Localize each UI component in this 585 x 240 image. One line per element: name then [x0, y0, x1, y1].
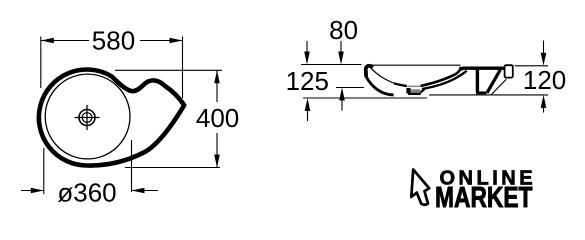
side view bottom line — [429, 94, 548, 96]
dimension 580 extension line right — [182, 37, 184, 99]
dimension 80 arrow down — [340, 41, 342, 58]
side view bowl back wall inner — [421, 67, 461, 86]
dimension 400 arrow bottom — [214, 155, 220, 168]
dimension 580 arrow left — [41, 38, 54, 44]
dimension 400 arrow top — [214, 70, 220, 83]
dimension 125 arrow up — [307, 105, 309, 121]
dimension 400 line bottom segment — [216, 133, 218, 168]
side view drain boss — [408, 86, 426, 94]
side view cavity left wall — [476, 69, 479, 93]
dimension 80 arrow up — [341, 94, 343, 111]
dimension 360 arrow right — [132, 188, 145, 194]
dimension 580 line right segment — [140, 40, 183, 42]
dimension 580 line left segment — [41, 40, 89, 42]
dimension 400 extension line top — [115, 69, 222, 71]
dimension 360 arrow left — [31, 188, 44, 194]
side view reference line bottom — [303, 97, 427, 99]
svg-text:80: 80 — [329, 15, 358, 45]
dimension 360 line left outside — [21, 190, 44, 192]
side view bowl bottom thick line — [394, 83, 407, 86]
side view top surface line — [368, 64, 461, 66]
svg-text:580: 580 — [92, 26, 135, 56]
side view bowl back wall outer — [422, 71, 467, 89]
side view reference line top left — [301, 64, 362, 66]
side view cavity bottom — [476, 92, 487, 95]
dimension 360 extension line right — [131, 140, 133, 192]
dimension 400 extension line bottom — [125, 167, 220, 169]
drain symbol — [75, 105, 100, 130]
dimension 400 line top segment — [216, 70, 218, 102]
side view bowl interior thin line — [371, 68, 397, 84]
svg-text:ø360: ø360 — [57, 178, 116, 208]
side view bottom diagonal — [491, 79, 506, 95]
side view left rim — [366, 66, 372, 76]
dimension 120 arrow up — [543, 105, 545, 113]
inner bowl circle — [45, 74, 130, 159]
svg-text:120: 120 — [523, 65, 566, 95]
dimension 580 arrow right — [170, 38, 183, 44]
logo cursor — [411, 170, 429, 205]
dimension 120 reference line top — [515, 65, 548, 67]
basin outer outline (top view) — [39, 70, 184, 166]
svg-text:MARKET: MARKET — [435, 183, 533, 214]
side view tail top edge — [461, 68, 506, 70]
dimension 360 line right outside — [132, 190, 159, 192]
svg-text:125: 125 — [286, 66, 329, 96]
svg-text:400: 400 — [196, 103, 239, 133]
side view reference line middle — [336, 87, 364, 89]
dimension 580 extension line left — [40, 37, 42, 89]
side view end tab — [505, 65, 513, 77]
side view front apron curve — [366, 76, 394, 95]
side view cavity right diagonal — [487, 70, 500, 93]
dimension 120 arrow down — [543, 41, 545, 60]
dimension 125 arrow down — [306, 41, 308, 58]
dimension 360 extension line left — [43, 148, 45, 194]
